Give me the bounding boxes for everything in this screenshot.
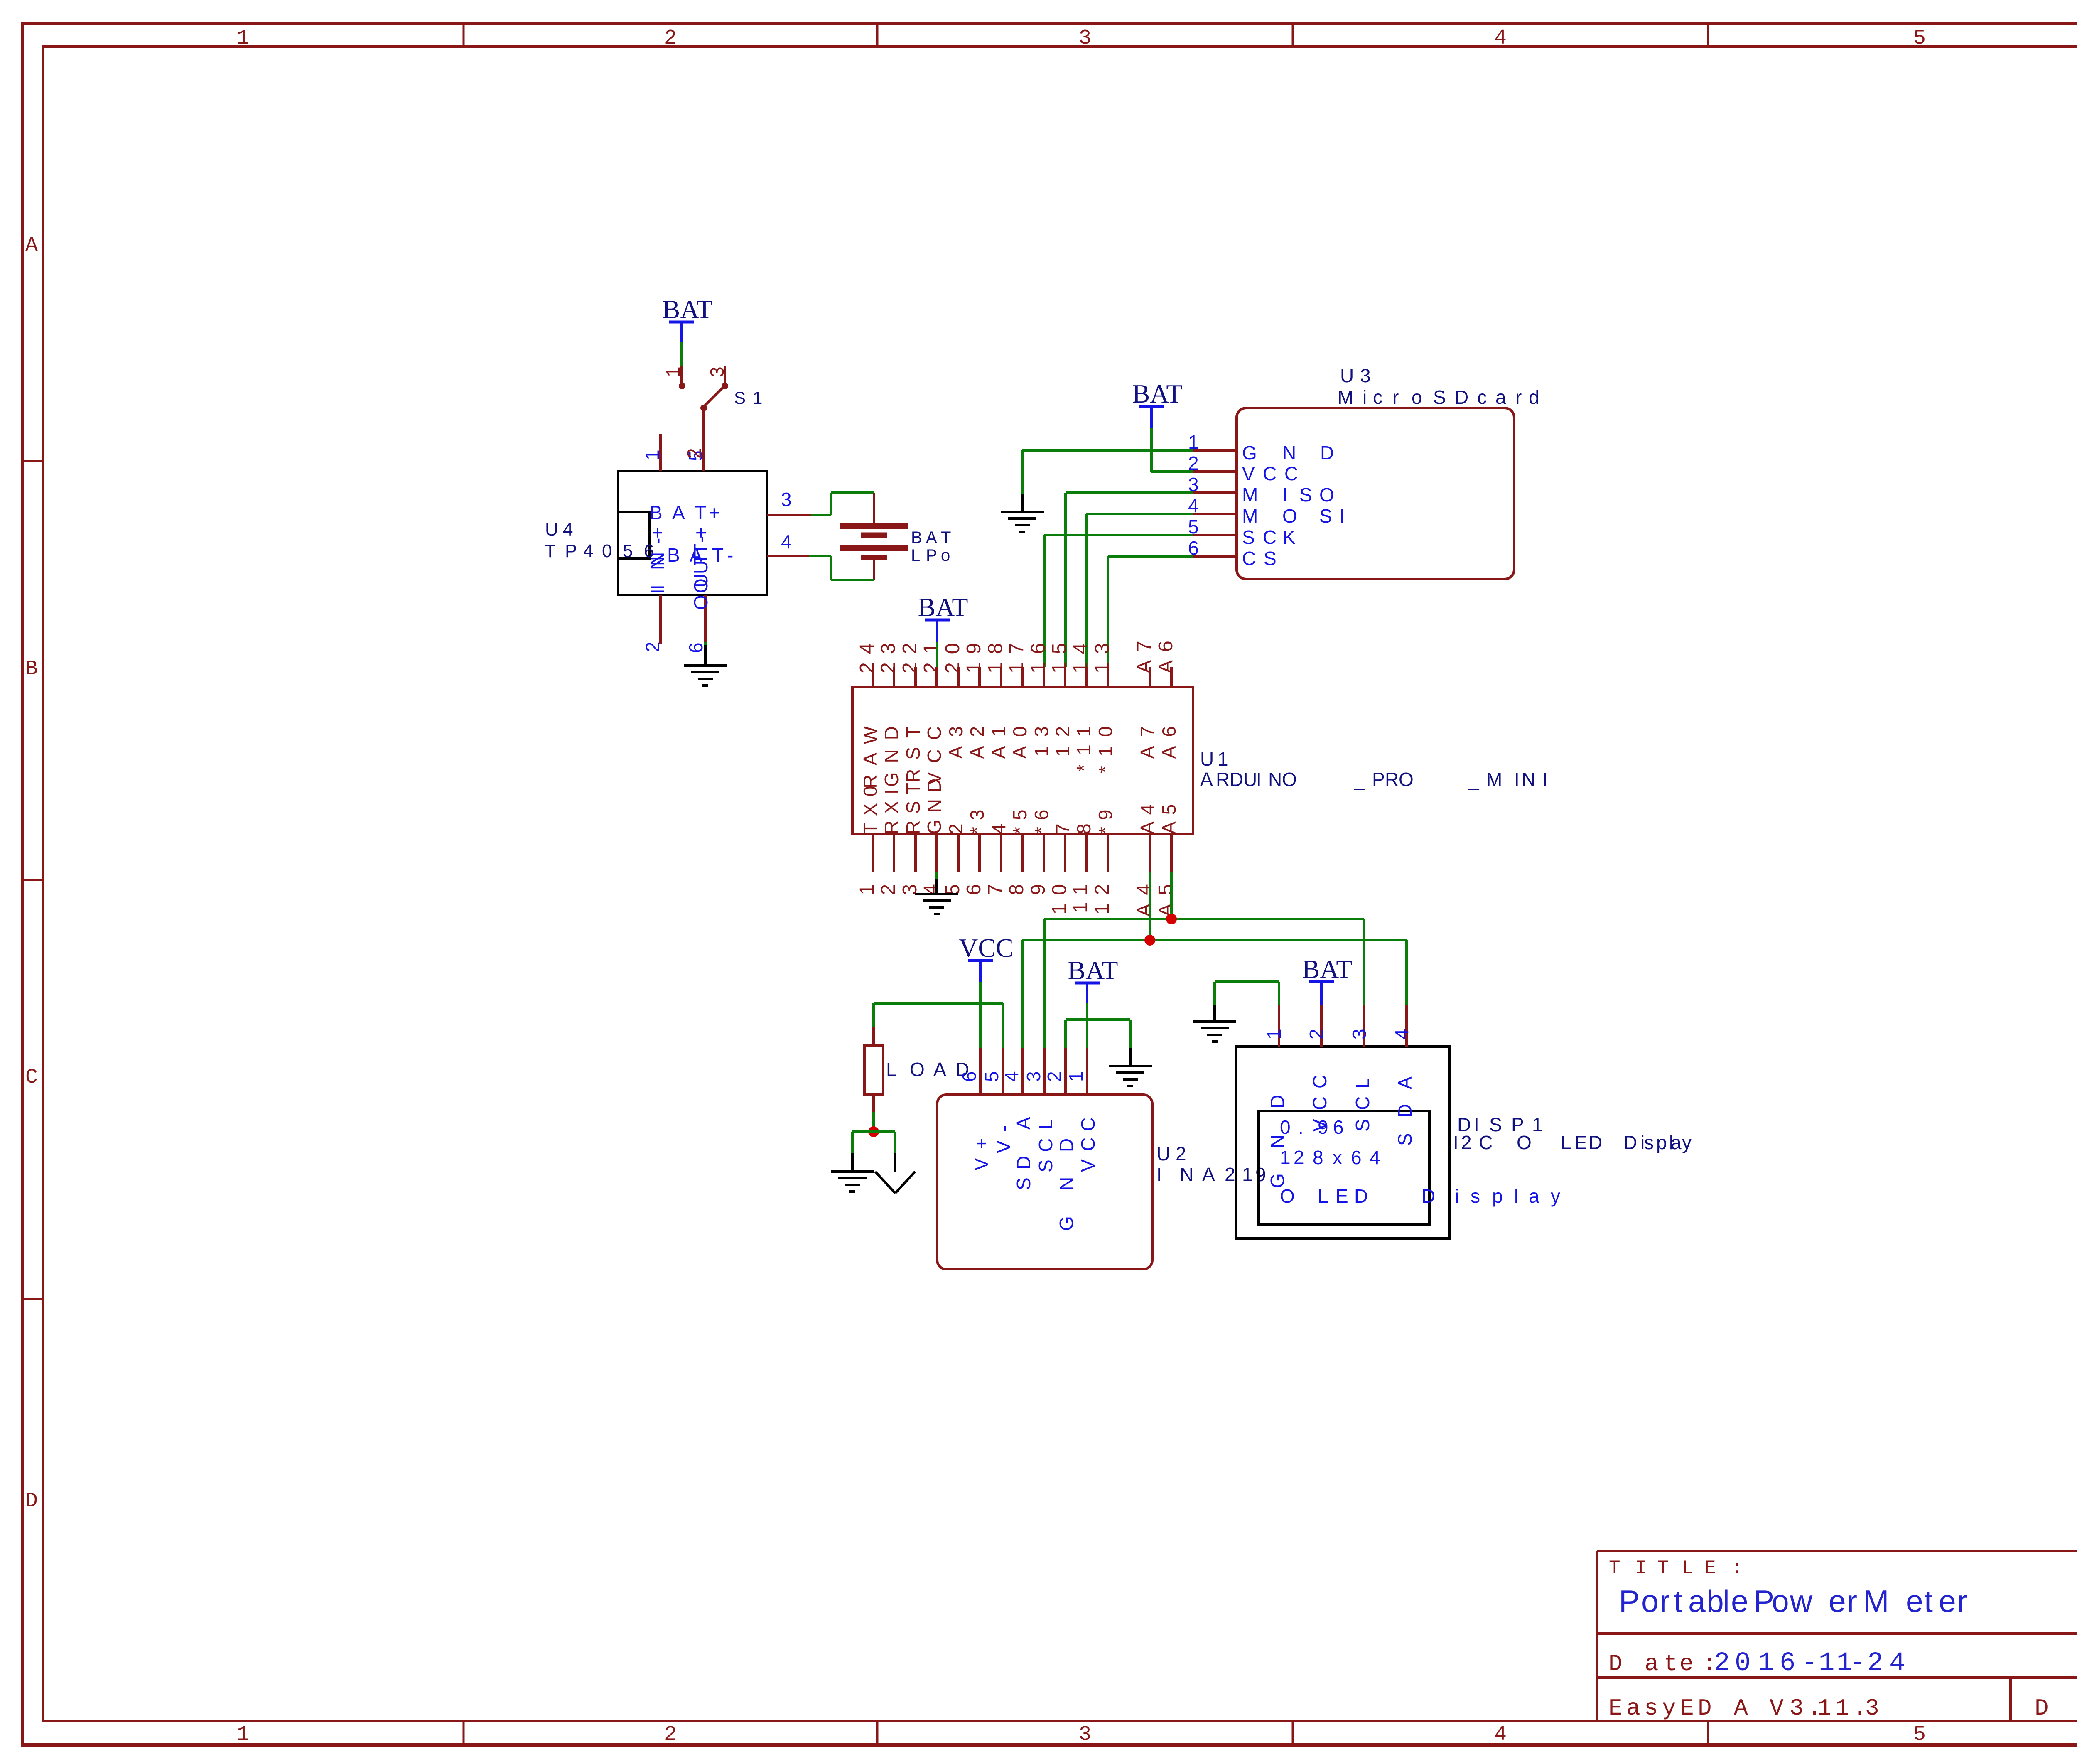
svg-text:SCL: SCL	[1352, 1078, 1373, 1132]
svg-text:4: 4	[988, 817, 1009, 834]
svg-text:SDA: SDA	[1394, 1076, 1416, 1146]
svg-text:C: C	[25, 1066, 38, 1089]
svg-text:A7: A7	[1133, 632, 1155, 673]
svg-text:14: 14	[1070, 635, 1092, 673]
svg-text:GND: GND	[881, 717, 902, 787]
svg-text:15: 15	[1048, 635, 1070, 673]
svg-text:6: 6	[958, 1071, 980, 1082]
svg-text:RXI: RXI	[881, 782, 902, 834]
svg-text:MOSI: MOSI	[1242, 505, 1345, 527]
svg-text:VCC: VCC	[1077, 1118, 1099, 1172]
svg-text:2: 2	[1043, 1071, 1065, 1082]
svg-text:A: A	[25, 234, 38, 258]
svg-text:3: 3	[1348, 1029, 1370, 1039]
svg-text:5: 5	[942, 876, 964, 895]
svg-text:4: 4	[781, 531, 792, 553]
svg-text:GND: GND	[923, 772, 945, 834]
svg-text:6: 6	[963, 876, 985, 895]
svg-text:2016-11-24: 2016-11-24	[1714, 1649, 1905, 1678]
svg-text:16: 16	[1027, 635, 1049, 673]
svg-text:3: 3	[706, 366, 728, 377]
svg-text:7: 7	[1052, 817, 1073, 834]
svg-text:1: 1	[1065, 1071, 1087, 1082]
svg-text:A5: A5	[1158, 798, 1180, 834]
svg-text:2: 2	[664, 27, 677, 50]
svg-text:1: 1	[662, 366, 684, 377]
svg-text:ARDUINO_PRO_MINI: ARDUINO_PRO_MINI	[1200, 769, 1548, 790]
svg-text:RST: RST	[902, 776, 924, 834]
svg-text:*5: *5	[1009, 803, 1031, 834]
svg-text:TX0: TX0	[859, 779, 881, 834]
svg-text:SCK: SCK	[1242, 526, 1296, 548]
svg-text:10: 10	[1048, 876, 1070, 914]
svg-text:5: 5	[981, 1071, 1002, 1082]
svg-text:D: D	[25, 1489, 38, 1513]
svg-text:21: 21	[920, 635, 942, 673]
svg-text:*6: *6	[1031, 803, 1052, 834]
svg-text:A3: A3	[945, 717, 967, 759]
svg-text:13: 13	[1031, 717, 1052, 757]
svg-text:24: 24	[856, 635, 878, 673]
svg-text:7: 7	[984, 876, 1007, 895]
svg-text:SCL: SCL	[1035, 1119, 1056, 1172]
svg-text:A4: A4	[1133, 876, 1155, 917]
svg-text:A4: A4	[1137, 798, 1158, 834]
svg-text:18: 18	[984, 635, 1007, 673]
svg-text:2: 2	[945, 817, 967, 834]
svg-text:B: B	[25, 657, 38, 681]
svg-text:8: 8	[1073, 817, 1095, 834]
svg-text:3: 3	[1079, 27, 1091, 50]
svg-text:13: 13	[1091, 635, 1113, 673]
svg-text:GND: GND	[1267, 1095, 1288, 1188]
svg-text:BAT: BAT	[911, 528, 951, 547]
svg-text:2: 2	[877, 876, 899, 895]
svg-text:GND: GND	[1242, 442, 1334, 464]
svg-text:2: 2	[683, 448, 705, 459]
svg-text:BAT: BAT	[663, 295, 713, 324]
svg-text:BAT: BAT	[1068, 956, 1118, 985]
svg-text:*10: *10	[1095, 717, 1116, 773]
svg-text:OLED: OLED	[1280, 1185, 1368, 1207]
svg-text:A5: A5	[1155, 876, 1177, 917]
svg-text:3: 3	[1023, 1071, 1044, 1082]
svg-text:VCC: VCC	[959, 933, 1014, 963]
svg-text:4: 4	[1391, 1029, 1412, 1039]
svg-text:GND: GND	[1056, 1138, 1077, 1231]
svg-text:1: 1	[856, 876, 878, 895]
svg-text:9: 9	[1027, 876, 1049, 895]
svg-text:12: 12	[1091, 876, 1113, 914]
svg-text:1: 1	[641, 450, 663, 460]
svg-text:3: 3	[899, 876, 921, 895]
svg-text:1: 1	[237, 1723, 249, 1747]
svg-text:3: 3	[781, 489, 792, 510]
svg-text:23: 23	[877, 635, 899, 673]
svg-text:*9: *9	[1095, 803, 1116, 834]
svg-text:4: 4	[1494, 1723, 1507, 1747]
svg-text:17: 17	[1006, 635, 1028, 673]
svg-text:*3: *3	[966, 803, 988, 834]
svg-text:5: 5	[1913, 27, 1926, 50]
svg-text:12: 12	[1052, 717, 1073, 757]
svg-text:A0: A0	[1009, 717, 1031, 759]
svg-text:3: 3	[1079, 1723, 1091, 1747]
svg-text:Display: Display	[1623, 1132, 1692, 1153]
svg-text:BAT+: BAT+	[650, 502, 720, 523]
svg-text:19: 19	[963, 635, 985, 673]
svg-text:A1: A1	[988, 717, 1009, 759]
svg-text:RAW: RAW	[859, 717, 881, 789]
svg-text:5: 5	[1913, 1723, 1926, 1747]
svg-text:BAT: BAT	[1302, 954, 1353, 984]
svg-text:1: 1	[1263, 1029, 1285, 1039]
svg-text:4: 4	[1001, 1071, 1022, 1082]
svg-text:11: 11	[1070, 876, 1092, 913]
svg-text:1: 1	[237, 27, 249, 50]
svg-text:2: 2	[1306, 1029, 1327, 1039]
svg-text:8: 8	[1006, 876, 1028, 895]
svg-text:20: 20	[942, 635, 964, 673]
svg-text:BAT: BAT	[1132, 379, 1183, 408]
svg-text:6: 6	[685, 642, 707, 653]
svg-text:4: 4	[1494, 27, 1507, 50]
svg-text:A6: A6	[1155, 632, 1177, 673]
svg-text:4: 4	[920, 876, 942, 895]
svg-text:22: 22	[899, 635, 921, 673]
svg-text:RST: RST	[902, 717, 924, 783]
svg-text:2: 2	[642, 641, 663, 652]
svg-text:A2: A2	[966, 717, 988, 759]
svg-text:*11: *11	[1073, 717, 1095, 772]
svg-text:A7: A7	[1137, 717, 1158, 759]
svg-text:BAT: BAT	[918, 592, 968, 622]
svg-text:VCC: VCC	[1242, 463, 1298, 484]
svg-text:A6: A6	[1158, 717, 1180, 759]
svg-text:2: 2	[664, 1723, 677, 1747]
svg-text:LPo: LPo	[911, 546, 950, 565]
